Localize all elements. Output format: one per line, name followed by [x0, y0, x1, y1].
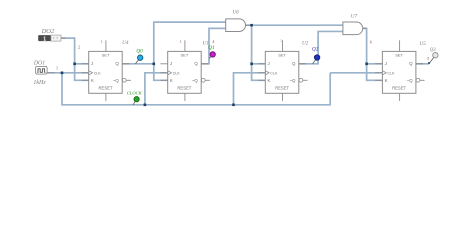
- svg-text:CLK: CLK: [387, 71, 395, 75]
- probe Q0 (on, cyan): [135, 49, 143, 64]
- junction Q0 branch: [153, 63, 156, 66]
- svg-text:Q0: Q0: [136, 49, 143, 55]
- svg-text:Q: Q: [194, 61, 198, 66]
- wire: Q3 net stub from U5 Q: [416, 63, 429, 65]
- wire endpoint dot Q3: [428, 62, 430, 64]
- svg-text:1: 1: [56, 66, 58, 71]
- junction J1 branch: [73, 63, 76, 66]
- svg-text:U6: U6: [232, 10, 239, 16]
- JK flip-flop U2: [265, 40, 307, 101]
- U6 output pin stub: [245, 24, 251, 26]
- wire: Q2 net, U2 Q up to U7 input B: [299, 31, 343, 63]
- JK flip-flop U1: [168, 40, 210, 101]
- svg-text:4: 4: [212, 39, 214, 44]
- svg-text:~Q: ~Q: [113, 78, 120, 83]
- svg-text:RESET: RESET: [275, 85, 289, 90]
- svg-text:CLK: CLK: [94, 71, 102, 75]
- wire: clock riser to U2 CLK: [234, 73, 266, 105]
- svg-text:Q1: Q1: [208, 45, 215, 51]
- wire: clock bus bottom: [62, 73, 330, 105]
- digital constant DO2: [38, 28, 61, 42]
- svg-text:U4: U4: [122, 39, 129, 46]
- svg-text:Q3: Q3: [430, 48, 436, 53]
- svg-text:CLK: CLK: [270, 71, 278, 75]
- AND gate U7: [343, 22, 363, 35]
- wire: Q0 net, U4 Q to U1 J/K and rail to U6 input A: [122, 63, 154, 65]
- svg-text:DO2: DO2: [41, 28, 55, 35]
- wire: DO2 to U4 J and K: [61, 38, 89, 80]
- svg-text:~Q: ~Q: [289, 78, 296, 83]
- svg-text:Q: Q: [409, 61, 413, 66]
- svg-text:K: K: [268, 78, 271, 83]
- svg-text:1: 1: [180, 39, 182, 44]
- junction bus to U2 clk: [232, 104, 235, 107]
- DO2 output pin stub: [61, 37, 66, 39]
- pin stubs (gray) over wires: [81, 64, 423, 81]
- wire: U7 output down to U5 J/K: [363, 28, 383, 80]
- junction clock/DO1 branch: [61, 72, 64, 75]
- svg-text:Q: Q: [292, 61, 296, 66]
- svg-text:SET: SET: [395, 52, 403, 57]
- svg-text:6: 6: [370, 40, 372, 45]
- svg-text:RESET: RESET: [392, 85, 406, 90]
- svg-text:K: K: [91, 78, 94, 83]
- junction bus to U1 clk: [144, 104, 147, 107]
- AND gate U6: [226, 19, 246, 32]
- wire: clock riser to U1 CLK: [145, 73, 168, 105]
- JK flip-flop U4: [89, 40, 131, 101]
- svg-text:RESET: RESET: [99, 85, 113, 90]
- svg-text:Q2: Q2: [312, 46, 319, 52]
- svg-text:K: K: [170, 78, 173, 83]
- svg-text:SET: SET: [181, 52, 189, 57]
- svg-text:CLOCK: CLOCK: [127, 90, 143, 95]
- junction J4 branch: [365, 63, 368, 66]
- svg-text:2: 2: [78, 44, 80, 49]
- svg-text:Q: Q: [115, 61, 119, 66]
- DO1 output pin stub: [47, 72, 54, 74]
- svg-text:U5: U5: [420, 41, 427, 47]
- svg-text:U2: U2: [302, 40, 309, 46]
- svg-text:1: 1: [43, 36, 46, 42]
- svg-text:J: J: [170, 61, 172, 66]
- wire: DO1 clock output to U4 CLK: [47, 72, 89, 74]
- wire: clock bus corner to U5 CLK: [330, 72, 382, 74]
- U7 output pin stub: [363, 27, 367, 29]
- svg-text:1kHz: 1kHz: [33, 80, 46, 86]
- probe Q2 (on, blue): [312, 46, 320, 63]
- svg-text:J: J: [91, 61, 93, 66]
- junction U6 output branch: [250, 24, 253, 27]
- svg-text:~Q: ~Q: [407, 78, 414, 83]
- wire: Q1 net, U1 Q up to U6 input B: [201, 28, 226, 63]
- svg-text:1: 1: [100, 39, 102, 44]
- svg-text:~Q: ~Q: [192, 78, 199, 83]
- junction J3 branch: [250, 63, 253, 66]
- probe CLOCK (on, green): [127, 90, 143, 104]
- probe Q3 (off, gray): [429, 48, 438, 64]
- JK flip-flop U5: [382, 40, 424, 101]
- svg-text:DO1: DO1: [33, 61, 45, 67]
- svg-text:1: 1: [280, 39, 282, 43]
- svg-text:J: J: [268, 61, 270, 66]
- svg-text:CLK: CLK: [173, 71, 181, 75]
- svg-text:SET: SET: [278, 52, 286, 57]
- probe Q1 (on, magenta): [208, 45, 215, 58]
- svg-text:SET: SET: [102, 52, 110, 57]
- svg-text:RESET: RESET: [177, 85, 191, 90]
- svg-text:5: 5: [427, 56, 429, 61]
- svg-text:U7: U7: [351, 13, 358, 19]
- clock source DO1 1kHz: [33, 61, 47, 86]
- wire: U6 output to U7 input A and down to U2 J/K: [245, 24, 343, 26]
- svg-text:J: J: [385, 61, 387, 66]
- svg-text:K: K: [385, 78, 388, 83]
